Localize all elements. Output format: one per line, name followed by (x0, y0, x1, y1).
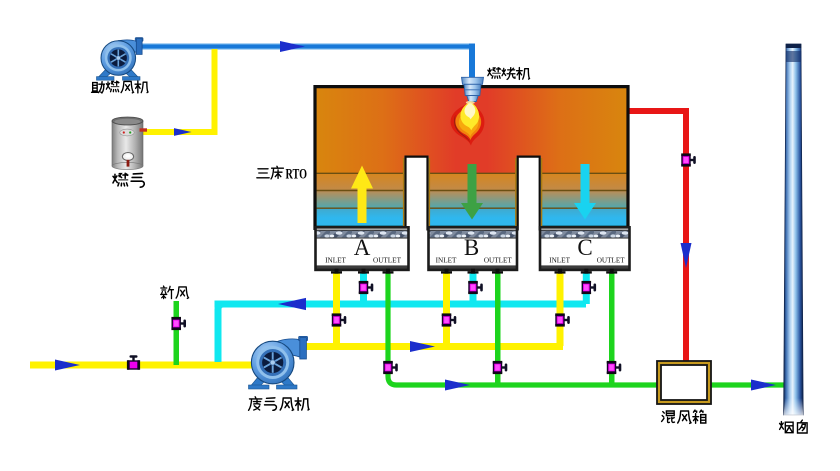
wire: yellow waste-gas main inlet (30, 362, 252, 369)
wire: cyan riser C (583, 273, 590, 304)
yellow up arrow in bed A (351, 166, 373, 224)
wire: blue pipe vertical drop to burner (469, 44, 475, 79)
svg-text:OUTLET: OUTLET (484, 257, 513, 265)
label C (577, 235, 592, 260)
label 废气风机 (249, 397, 309, 411)
arrow on waste-gas main (55, 360, 80, 371)
wire: yellow inlet riser B (443, 273, 450, 346)
wire: cyan purge header horizontal (215, 301, 587, 308)
label 燃烧机 (488, 68, 530, 80)
svg-text:OUTLET: OUTLET (373, 257, 402, 265)
svg-text:B: B (464, 235, 479, 260)
valve fresh air (171, 317, 186, 330)
valve on waste main (horizontal) (127, 355, 140, 370)
arrow left on cyan header (278, 298, 306, 310)
label 混风箱 (662, 410, 706, 423)
combustion air fan (top left) (97, 38, 144, 81)
wire: red pipe vertical to mixing box (683, 108, 689, 361)
svg-text:C: C (577, 235, 592, 260)
label OUTLET C (597, 257, 626, 265)
mixing box (657, 361, 711, 404)
label 新风 (161, 286, 189, 299)
valves on yellow risers (332, 313, 347, 326)
divider notch 2 (515, 156, 542, 231)
label 燃气 (113, 173, 144, 187)
wire: red hot-gas pipe horizontal from RTO (629, 108, 689, 114)
chamber box C (540, 227, 630, 270)
svg-text:INLET: INLET (436, 257, 457, 265)
wire: yellow fan discharge header (303, 343, 563, 350)
label INLET C (549, 257, 570, 265)
arrow on gas pipe (174, 128, 192, 136)
arrow on green header at chimney (751, 380, 776, 391)
svg-text:INLET: INLET (325, 257, 346, 265)
wire: blue combustion-air pipe horizontal (137, 44, 472, 50)
wire: yellow inlet riser C (557, 273, 564, 346)
valve on red pipe (681, 153, 696, 166)
svg-text:A: A (354, 235, 371, 260)
label A (354, 235, 371, 260)
cyan down arrow in bed C (574, 164, 596, 220)
pipe stubs under chamber boxes (331, 269, 617, 274)
label 烟囱 (780, 420, 808, 433)
wire: yellow gas pipe horizontal (143, 129, 217, 135)
wire: cyan riser A (360, 273, 367, 304)
svg-text:OUTLET: OUTLET (597, 257, 626, 265)
burner nozzle (462, 77, 484, 101)
arrow on green header (445, 380, 470, 391)
svg-text:INLET: INLET (549, 257, 570, 265)
wire: cyan riser B (470, 273, 477, 304)
arrow on blue pipe (280, 41, 305, 52)
wire: green outlet riser C (609, 273, 615, 385)
valves on green risers (383, 361, 398, 374)
wire: yellow inlet riser A (333, 273, 340, 346)
RTO main chamber body (315, 87, 628, 231)
label 助燃风机 (92, 81, 148, 93)
wire: green fresh-air vertical (174, 301, 180, 365)
wire: cyan purge down-leg to fan suction (218, 304, 224, 362)
divider notch 1 (403, 156, 430, 231)
svg-text:RTO: RTO (286, 167, 308, 183)
arrow on yellow header (410, 341, 435, 352)
chamber box B (429, 227, 518, 270)
wire: green outlet riser B (495, 273, 501, 385)
label OUTLET A (373, 257, 402, 265)
gas tank (112, 117, 147, 170)
wire: green outlet header to mixing box and chimney (388, 273, 784, 385)
wire: yellow gas pipe vertical (212, 49, 218, 135)
label 三床RTO (257, 166, 307, 182)
green down arrow in bed B (461, 164, 483, 220)
chimney (784, 44, 804, 416)
flame (451, 101, 485, 146)
arrow down on red pipe (681, 243, 692, 268)
label B (464, 235, 479, 260)
chamber box A (316, 227, 409, 270)
label INLET A (325, 257, 346, 265)
label OUTLET B (484, 257, 513, 265)
waste gas fan (bottom) (249, 336, 308, 389)
label INLET B (436, 257, 457, 265)
valves on cyan risers (359, 281, 374, 294)
